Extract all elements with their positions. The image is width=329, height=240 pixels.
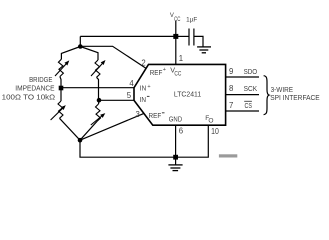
svg-text:LTC2411: LTC2411 (174, 89, 201, 98)
svg-text:10: 10 (211, 127, 219, 136)
svg-text:100Ω TO 10kΩ: 100Ω TO 10kΩ (2, 92, 56, 101)
svg-text:1: 1 (179, 54, 183, 63)
svg-text:3: 3 (136, 110, 140, 119)
svg-text:O: O (208, 117, 213, 124)
svg-text:+: + (147, 84, 150, 90)
svg-text:7: 7 (229, 101, 233, 110)
svg-text:CC: CC (174, 17, 181, 23)
svg-text:SDO: SDO (244, 67, 258, 76)
svg-text:REF: REF (149, 111, 162, 120)
svg-text:IMPEDANCE: IMPEDANCE (15, 83, 54, 92)
svg-text:2: 2 (141, 58, 145, 67)
svg-text:4: 4 (129, 79, 134, 88)
svg-text:SPI INTERFACE: SPI INTERFACE (270, 93, 320, 102)
svg-text:+: + (163, 67, 166, 73)
svg-text:GND: GND (169, 115, 182, 124)
svg-text:IN: IN (140, 95, 146, 104)
svg-text:CC: CC (174, 72, 182, 78)
svg-text:REF: REF (150, 68, 163, 77)
svg-text:SCK: SCK (244, 84, 258, 93)
svg-text:1µF: 1µF (186, 18, 197, 24)
svg-text:5: 5 (127, 91, 132, 100)
svg-text:IN: IN (140, 84, 146, 93)
svg-text:9: 9 (229, 67, 233, 76)
svg-text:8: 8 (229, 84, 233, 93)
svg-text:CS: CS (245, 101, 253, 110)
svg-text:6: 6 (179, 127, 183, 136)
